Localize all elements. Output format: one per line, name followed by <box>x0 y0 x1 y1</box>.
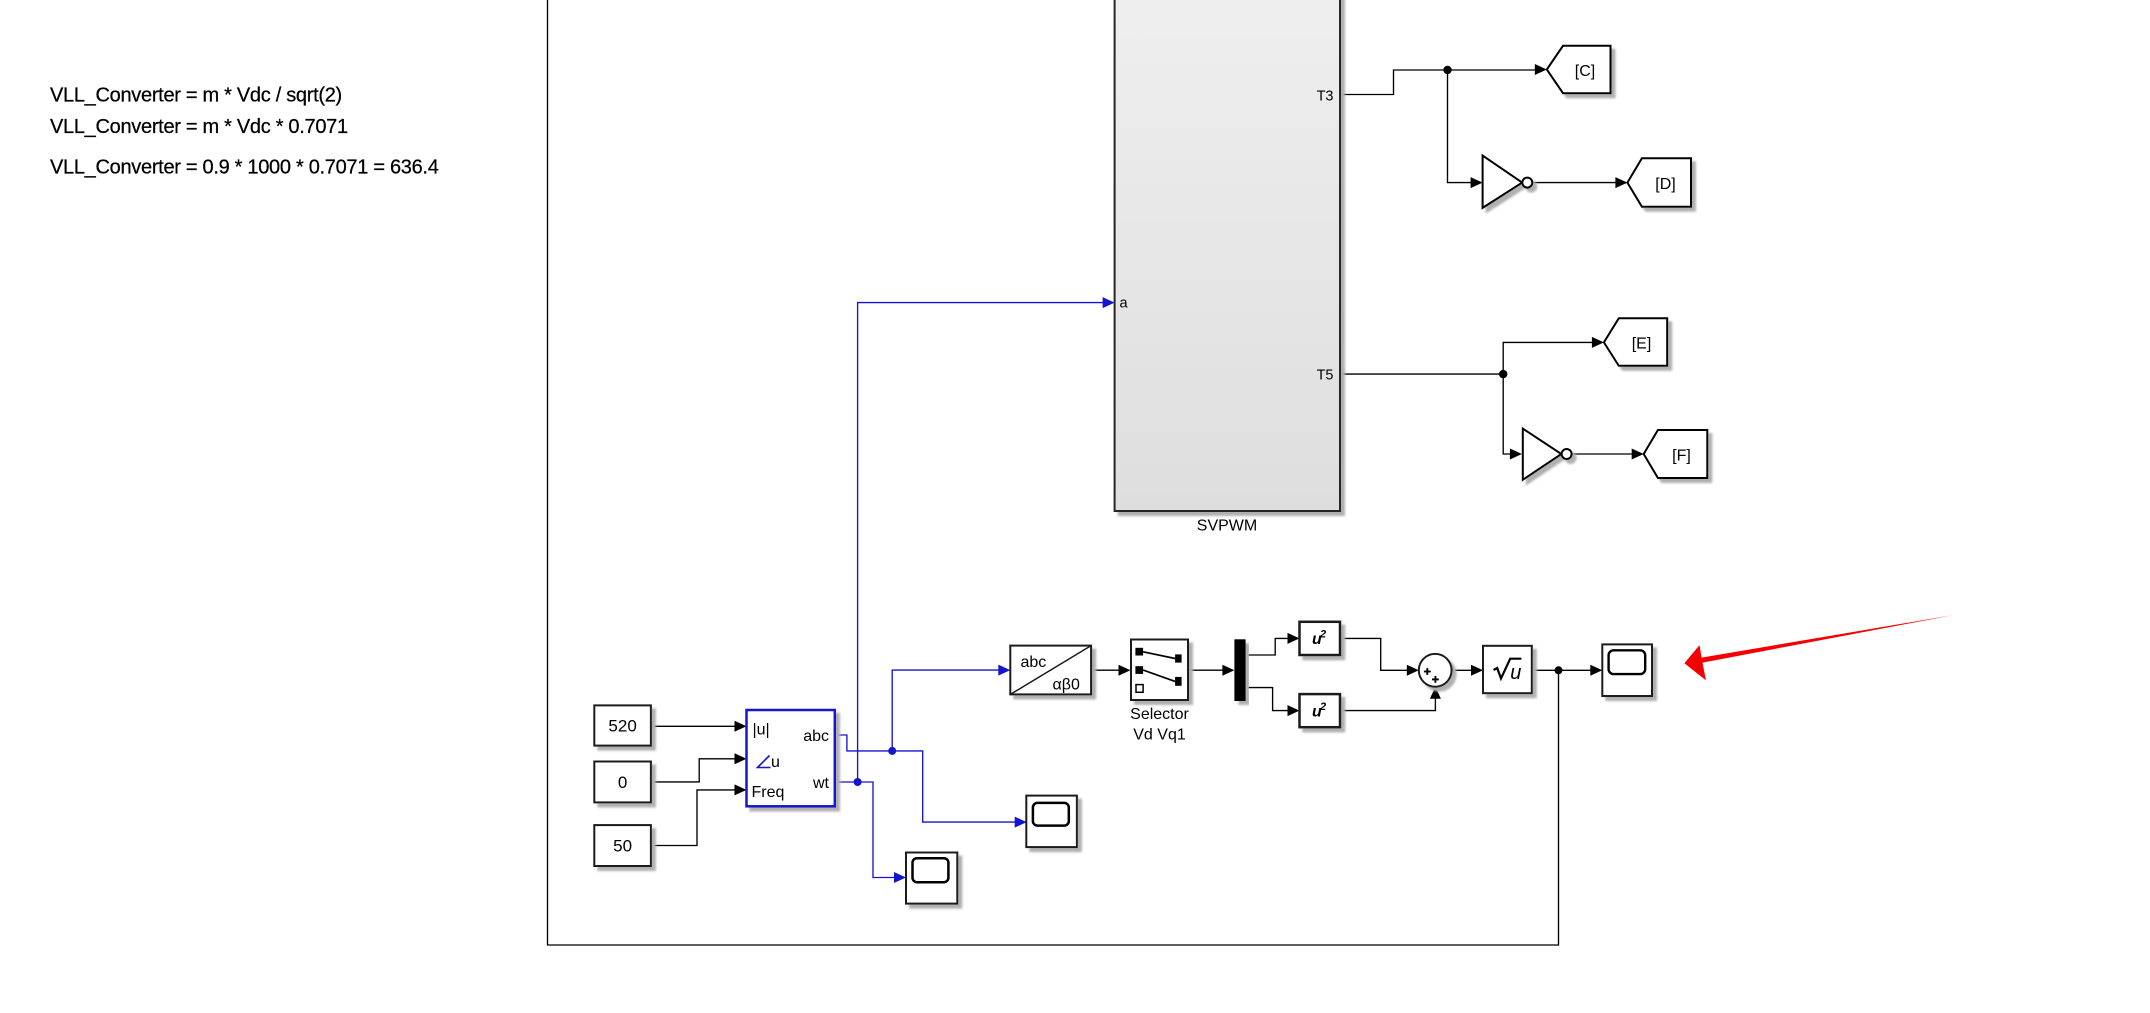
svg-text:T5: T5 <box>1317 368 1334 384</box>
svg-text:50: 50 <box>613 837 632 856</box>
svg-text:VLL_Converter = m * Vdc / sqrt: VLL_Converter = m * Vdc / sqrt(2) <box>50 85 342 107</box>
svg-text:VLL_Converter = 0.9 * 1000 * 0: VLL_Converter = 0.9 * 1000 * 0.7071 = 63… <box>50 157 439 179</box>
svg-text:T3: T3 <box>1317 89 1334 105</box>
svg-text:Vd Vq1: Vd Vq1 <box>1133 726 1186 743</box>
svg-text:abc: abc <box>1021 654 1047 671</box>
svg-text:[C]: [C] <box>1575 63 1595 80</box>
svg-text:2: 2 <box>1319 629 1326 641</box>
svg-text:u: u <box>1510 662 1521 684</box>
svg-text:VLL_Converter = m * Vdc * 0.70: VLL_Converter = m * Vdc * 0.7071 <box>50 116 348 138</box>
svg-text:520: 520 <box>608 717 636 736</box>
svg-text:a: a <box>1120 296 1129 312</box>
svg-text:SVPWM: SVPWM <box>1197 518 1257 535</box>
svg-text:u: u <box>771 754 780 771</box>
svg-text:2: 2 <box>1319 701 1326 713</box>
svg-text:[E]: [E] <box>1632 336 1652 353</box>
svg-text:Selector: Selector <box>1130 706 1189 723</box>
svg-text:[D]: [D] <box>1655 176 1675 193</box>
svg-text:[F]: [F] <box>1672 447 1691 464</box>
svg-text:|u|: |u| <box>753 722 770 739</box>
svg-text:0: 0 <box>618 773 627 792</box>
svg-text:Freq: Freq <box>752 784 785 801</box>
svg-text:abc: abc <box>803 728 829 745</box>
svg-text:wt: wt <box>812 775 830 792</box>
svg-text:αβ0: αβ0 <box>1053 677 1080 694</box>
